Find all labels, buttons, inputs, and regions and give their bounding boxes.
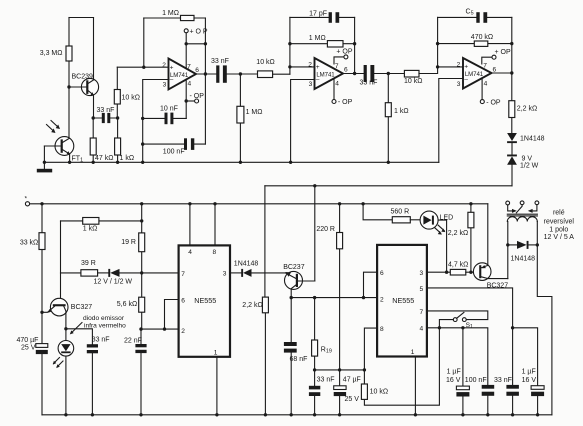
op-amp U3 LM741 [457, 58, 497, 89]
wire NE555-2 pin3 [427, 271, 450, 273]
svg-text:relé: relé [553, 209, 565, 216]
svg-text:1 kΩ: 1 kΩ [120, 155, 135, 162]
svg-text:2: 2 [162, 62, 166, 69]
diode D 1N4148 series [507, 133, 545, 155]
wire NE555-1 pin6 tie [165, 300, 179, 330]
capacitor C 100 nF [143, 138, 206, 155]
wire 560R branch [363, 204, 392, 220]
svg-text:33 nF: 33 nF [92, 337, 110, 344]
svg-text:1N4148: 1N4148 [511, 256, 536, 263]
svg-text:diodo emissor: diodo emissor [83, 315, 125, 322]
svg-text:25 V: 25 V [21, 345, 36, 352]
terminal +OP op3 [482, 49, 511, 64]
ground [43, 162, 45, 169]
svg-text:10 kΩ: 10 kΩ [404, 78, 422, 85]
svg-text:9 V: 9 V [522, 156, 533, 163]
op-amp U1 LM741 [162, 59, 199, 90]
svg-text:+: + [170, 64, 174, 71]
svg-text:4: 4 [188, 81, 192, 88]
svg-text:33 kΩ: 33 kΩ [20, 239, 38, 246]
wire left branch vertical [60, 221, 62, 299]
svg-text:7: 7 [420, 309, 424, 316]
wire NE555-2 pin5 [427, 288, 513, 385]
svg-text:R19: R19 [321, 347, 332, 355]
capacitor C 22 nF [124, 329, 147, 415]
svg-text:1N4148: 1N4148 [234, 261, 259, 268]
svg-text:33 nF: 33 nF [360, 80, 378, 87]
svg-text:12 V / 5 A: 12 V / 5 A [544, 234, 575, 241]
node dots on main rail [40, 202, 43, 205]
svg-text:1 kΩ: 1 kΩ [394, 108, 409, 115]
svg-text:1/2 W: 1/2 W [520, 163, 539, 170]
svg-text:+ OP: + OP [495, 49, 511, 56]
svg-text:4: 4 [188, 249, 192, 256]
wire NE555-1 pin4 riser [189, 204, 191, 246]
svg-text:25 V: 25 V [345, 396, 360, 403]
transistor BC237 [283, 264, 315, 298]
diode D 1N4148 relay [508, 241, 538, 263]
wire top-left collector loop [69, 17, 94, 19]
transistor BC327 left [40, 298, 92, 330]
svg-text:- OP: - OP [486, 99, 501, 106]
svg-text:12 V / 1/2 W: 12 V / 1/2 W [94, 278, 133, 285]
svg-text:10 kΩ: 10 kΩ [370, 389, 388, 396]
capacitor C 100 nF [465, 377, 494, 415]
wire op3 feedback right vertical [511, 17, 513, 73]
phototransistor FT1 [44, 137, 83, 164]
capacitor C 33 nF coupling1 [211, 58, 229, 83]
wire timing junction row [315, 369, 365, 371]
svg-text:10 kΩ: 10 kΩ [122, 94, 140, 101]
svg-text:2: 2 [457, 61, 461, 68]
wire pin4 drop op1 [185, 80, 187, 119]
svg-text:3: 3 [309, 81, 313, 88]
svg-text:5,6 kΩ: 5,6 kΩ [117, 301, 137, 308]
wire after cap1 [227, 73, 258, 75]
svg-text:19 R: 19 R [121, 239, 136, 246]
svg-text:7: 7 [483, 63, 487, 70]
svg-text:4: 4 [420, 326, 424, 333]
resistor R 470 kΩ [438, 34, 512, 47]
wire ground rail bottom [42, 414, 552, 416]
svg-text:–: – [316, 76, 320, 83]
svg-text:470 µF: 470 µF [17, 337, 39, 344]
resistor R 2,2 kΩ LED [448, 204, 474, 272]
resistor R 10 kΩ timer2 [361, 328, 439, 405]
IC NE555 timer1 [179, 245, 230, 356]
LED D infrared emitter [53, 329, 74, 415]
wire op1 output [196, 73, 216, 75]
capacitor C 33 nF coupling2 [360, 65, 378, 87]
capacitor C 68 nF [284, 296, 308, 415]
svg-text:3: 3 [163, 82, 167, 89]
wire NE555-2 pin2 [291, 297, 377, 299]
capacitor C 47 µF 25 V [334, 370, 361, 415]
svg-text:1 µF: 1 µF [522, 369, 536, 376]
svg-text:17 pF: 17 pF [309, 11, 327, 18]
terminal +OP op2 [334, 49, 353, 64]
capacitor C 1 µF 16 V a [446, 328, 469, 415]
light arrows into FT1 [47, 121, 59, 132]
svg-text:–: – [170, 77, 174, 84]
svg-text:10 kΩ: 10 kΩ [256, 59, 274, 66]
wire op2 pin2 [290, 66, 315, 68]
capacitor C 1 µF 16 V b [522, 369, 545, 415]
wire NE555-1 pin8 riser [214, 204, 216, 246]
svg-text:8: 8 [213, 249, 217, 256]
capacitor C 33 nF emitter [92, 107, 120, 123]
svg-text:- OP: - OP [338, 99, 353, 106]
diode D 1N4148 pin3 [230, 261, 285, 277]
wire NE555-1 pin1 [216, 357, 218, 415]
terminal -OP op1 [186, 93, 204, 103]
resistor R 2,2 kΩ output [509, 73, 537, 133]
wire op2 pin3 return [291, 80, 315, 163]
wire reset branch right [513, 328, 538, 386]
capacitor C 33 nF sup [494, 377, 519, 415]
switch S1 [439, 312, 473, 330]
svg-text:1: 1 [411, 349, 415, 356]
resistor R 19 R [121, 204, 144, 275]
resistor R 1 MΩ shunt [237, 74, 263, 162]
wire op1 pin3 [143, 80, 169, 163]
svg-text:2: 2 [308, 61, 312, 68]
wire op1 feedback right vertical [204, 18, 206, 144]
svg-text:C5: C5 [466, 9, 474, 17]
wire after cap2 [374, 73, 404, 75]
svg-text:1 MΩ: 1 MΩ [309, 35, 326, 42]
svg-text:BC327: BC327 [487, 283, 509, 290]
wire relay coil left [507, 222, 509, 279]
wire 3.3M bottom to FT1 collector [68, 61, 70, 139]
wire 3.3M top [68, 18, 70, 47]
svg-text:2,2 kΩ: 2,2 kΩ [448, 230, 468, 237]
capacitor C 17 pF [290, 11, 355, 23]
wire NE555-2 pin6 tie [364, 272, 378, 297]
resistor R 560 R [391, 209, 421, 223]
svg-text:1N4148: 1N4148 [520, 135, 545, 142]
svg-text:33 nF: 33 nF [494, 377, 512, 384]
terminal +OP op1 [184, 29, 208, 68]
svg-text:33 nF: 33 nF [317, 377, 335, 384]
transistor BC327 right [473, 204, 508, 290]
resistor R 4,7 kΩ [448, 262, 479, 275]
resistor R 3,3 MΩ [66, 46, 72, 61]
svg-text:7: 7 [187, 63, 191, 70]
transistor BC239 [69, 18, 99, 119]
wire op3 feedback left vertical [437, 17, 439, 67]
svg-text:100 nF: 100 nF [163, 148, 185, 155]
svg-text:6: 6 [380, 270, 384, 277]
wire op3 output [492, 72, 512, 74]
svg-text:3: 3 [420, 270, 424, 277]
zener D 9V 1/2W [507, 155, 539, 186]
zener D 12V 1/2W [94, 269, 179, 285]
resistor R19 [312, 298, 332, 370]
svg-text:2: 2 [181, 328, 185, 335]
svg-text:5: 5 [420, 286, 424, 293]
svg-text:–: – [464, 76, 468, 83]
svg-text:1 MΩ: 1 MΩ [162, 10, 179, 17]
wire bottom rail of amp section [44, 161, 438, 163]
svg-text:LED: LED [440, 214, 454, 221]
svg-text:BC237: BC237 [283, 264, 305, 271]
wire op1 feedback left [143, 18, 145, 67]
LED D indicator [420, 211, 453, 272]
svg-text:6: 6 [195, 67, 199, 74]
svg-text:470 kΩ: 470 kΩ [471, 34, 493, 41]
wire op1 pin2 input [117, 66, 168, 68]
svg-text:22 nF: 22 nF [124, 338, 142, 345]
wire op3 pin3 return [439, 79, 463, 163]
svg-text:3: 3 [223, 271, 227, 278]
svg-text:*: * [25, 196, 28, 203]
svg-text:100 nF: 100 nF [465, 377, 487, 384]
svg-text:3,3 MΩ: 3,3 MΩ [40, 50, 63, 57]
resistor R 47 kΩ [90, 118, 113, 162]
svg-text:16 V: 16 V [446, 377, 461, 384]
wire NE555-1 pin2 [141, 328, 179, 330]
capacitor C 10 nF [143, 105, 187, 124]
wire BC237 base riser [298, 186, 315, 281]
svg-text:3: 3 [457, 81, 461, 88]
svg-text:reversível: reversível [544, 219, 575, 226]
svg-text:1 polo: 1 polo [549, 227, 568, 234]
svg-text:1: 1 [214, 349, 218, 356]
annotation diodo emissor [70, 315, 126, 334]
wire NE555-2 pin1 [414, 357, 416, 415]
resistor R 39 R [61, 260, 109, 276]
resistor R 1 kΩ osc [61, 218, 144, 233]
svg-text:1 MΩ: 1 MΩ [246, 109, 263, 116]
resistor R 1 MΩ feedback [144, 10, 206, 20]
svg-text:2,2 kΩ: 2,2 kΩ [242, 302, 262, 309]
capacitor C5 [438, 9, 512, 23]
svg-text:7: 7 [335, 63, 339, 70]
IC NE555 timer2 [377, 245, 427, 357]
node base BC239 [67, 85, 70, 88]
resistor R 10 kΩ series [256, 59, 290, 77]
wire op2 feedback left vertical [289, 17, 291, 74]
resistor R 1 kΩ shunt op2 [385, 74, 408, 163]
wire op3 pin2 [438, 66, 463, 68]
svg-text:47 kΩ: 47 kΩ [95, 155, 113, 162]
wire op2 feedback right vertical [354, 17, 356, 73]
resistor R 1 kΩ [115, 118, 134, 162]
resistor R 220 R [316, 204, 342, 370]
terminal -OP op3 [480, 79, 501, 107]
wire NE555-2 pin4 [427, 328, 488, 385]
svg-text:NE555: NE555 [194, 296, 216, 305]
resistor R 10 kΩ [114, 67, 140, 118]
resistor R 33 kΩ [20, 204, 45, 312]
svg-text:7: 7 [181, 271, 185, 278]
svg-text:S1: S1 [466, 322, 473, 330]
svg-text:4: 4 [484, 80, 488, 87]
wire supply rail upper [265, 185, 512, 187]
resistor R 2,2 kΩ mid shunt [242, 186, 268, 415]
op-amp U2 LM741 [308, 58, 348, 89]
svg-text:- OP: - OP [190, 93, 205, 100]
svg-text:4: 4 [335, 80, 339, 87]
svg-text:+: + [316, 64, 320, 71]
svg-text:+: + [464, 64, 468, 71]
wire NE555-2 pin7 loop [427, 311, 488, 320]
resistor R 10 kΩ series2 [404, 67, 438, 85]
svg-text:8: 8 [380, 326, 384, 333]
svg-text:4,7 kΩ: 4,7 kΩ [448, 262, 468, 269]
svg-text:6: 6 [344, 67, 348, 74]
svg-text:BC327: BC327 [71, 304, 93, 311]
svg-text:1 kΩ: 1 kΩ [83, 225, 98, 232]
svg-text:68 nF: 68 nF [290, 356, 308, 363]
svg-text:47 µF: 47 µF [343, 377, 361, 384]
wire FT1 base down [43, 146, 45, 162]
svg-text:33 nF: 33 nF [97, 107, 115, 114]
svg-text:220 R: 220 R [316, 226, 335, 233]
relay K1 coil [507, 214, 537, 221]
svg-text:39 R: 39 R [81, 260, 96, 267]
svg-text:+ O P: + O P [190, 29, 208, 36]
terminal input + [25, 196, 488, 206]
svg-text:16 V: 16 V [522, 377, 537, 384]
capacitor C 470 µF 25 V [17, 312, 48, 415]
svg-text:BC239: BC239 [72, 74, 94, 81]
relay K1 contacts [506, 201, 539, 213]
svg-text:NE555: NE555 [392, 296, 414, 305]
wire NE555-2 pin8 tie [364, 328, 377, 370]
capacitor C 33 nF timing [309, 370, 335, 415]
svg-text:2: 2 [380, 296, 384, 303]
label relay [544, 209, 575, 241]
svg-text:2,2 kΩ: 2,2 kΩ [517, 106, 537, 113]
svg-text:1 µF: 1 µF [447, 369, 461, 376]
capacitor C 33 nF timer1 [66, 329, 110, 415]
wire op2 output [343, 73, 364, 75]
svg-text:6: 6 [181, 297, 185, 304]
terminal -OP op2 [332, 79, 353, 106]
svg-text:+ OP: + OP [336, 49, 352, 56]
svg-text:560 R: 560 R [391, 209, 410, 216]
svg-text:33 nF: 33 nF [211, 58, 229, 65]
wire relay coil right [537, 222, 552, 415]
resistor R 1 MΩ op2 feedback [290, 35, 355, 47]
svg-text:10 nF: 10 nF [160, 105, 178, 112]
resistor R 5,6 kΩ [117, 273, 145, 329]
